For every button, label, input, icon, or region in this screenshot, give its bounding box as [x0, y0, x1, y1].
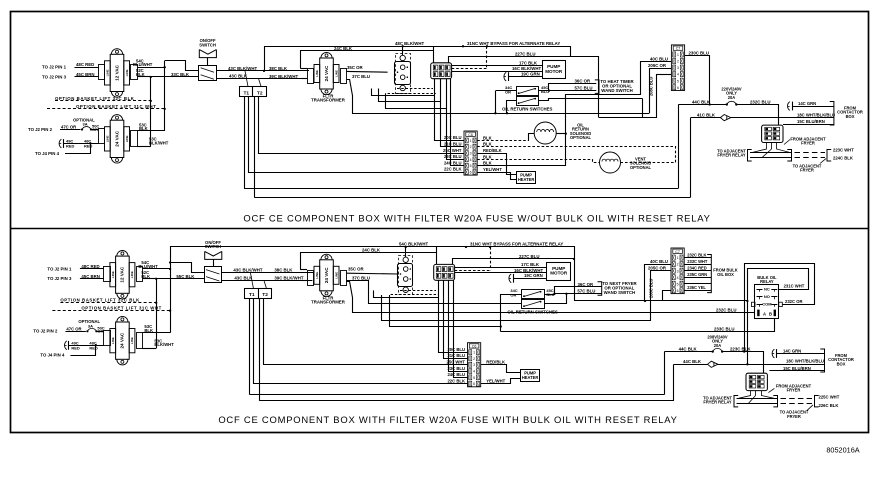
wire switch2 right link (bottom) [544, 294, 566, 304]
svg-text:SWITCH: SWITCH [199, 42, 216, 47]
svg-text:37C BLU: 37C BLU [352, 276, 370, 281]
wire bottom long run 2 (bottom) [260, 400, 674, 402]
wire 231C WHT from NC (bottom) [748, 269, 809, 365]
svg-text:19C GRN: 19C GRN [521, 71, 540, 76]
wire 39C to plug lower (top) [302, 78, 307, 80]
svg-text:BOX: BOX [837, 361, 846, 366]
wire 15C BLU/BRN (top) [783, 124, 834, 126]
svg-text:236C YEL: 236C YEL [687, 285, 706, 290]
wire riser run2 to fuse2 wire (bottom) [673, 364, 675, 401]
wire 40C BLU loop (bottom) [574, 300, 747, 302]
wire to J4 pin 4 (bottom) [70, 345, 95, 355]
svg-text:C6: C6 [468, 133, 473, 137]
node junction 52C bus (bottom) [155, 278, 157, 280]
plug left of FLTR transformer (top) [308, 69, 314, 84]
wire relay pin drop 1 (bottom) [439, 280, 468, 352]
on/off switch (top) stem [207, 58, 209, 66]
svg-text:3: 3 [473, 363, 475, 367]
svg-text:4: 4 [677, 276, 679, 280]
wire switch1 left drop (top) [495, 91, 497, 113]
node junction J4 (bottom) [95, 344, 97, 346]
wire 48C RED to J2 pin 1 (bottom) [80, 268, 104, 270]
connector C7 (top) [671, 45, 684, 91]
wire 223C WHT row (top) [750, 152, 792, 154]
wire switch to T2 drop (top) [259, 79, 262, 87]
svg-text:5: 5 [470, 164, 472, 168]
capacitor symbol 14C GRN (bottom) [772, 349, 774, 358]
svg-text:BLK: BLK [136, 72, 145, 77]
wire 47C OR to J2 pin 2 (bottom) [65, 331, 86, 333]
svg-text:232C BLK: 232C BLK [687, 252, 706, 257]
svg-text:45C BRN: 45C BRN [81, 274, 100, 279]
svg-text:24C BLK: 24C BLK [362, 248, 381, 253]
svg-text:3: 3 [470, 152, 472, 156]
svg-text:A: A [763, 311, 766, 316]
svg-text:5: 5 [677, 282, 679, 286]
svg-text:LINE: LINE [111, 337, 115, 344]
svg-text:FRYER: FRYER [800, 168, 814, 173]
connector adjacent fryer (bottom) [746, 373, 767, 390]
svg-text:44C BLK: 44C BLK [679, 346, 698, 351]
svg-text:223C BLK: 223C BLK [730, 346, 751, 351]
svg-text:OIL BOX: OIL BOX [717, 272, 734, 277]
svg-text:BLK: BLK [141, 274, 150, 279]
wire switch to T2 drop (bottom) [264, 280, 267, 288]
wire 232C BLU (top) [736, 105, 778, 126]
svg-text:226C BLK: 226C BLK [819, 403, 839, 408]
transformer 24VAC (bottom) [110, 316, 135, 365]
wire 34C OR into switch1 (top) [495, 90, 516, 92]
svg-text:36C OR: 36C OR [578, 282, 595, 287]
terminal T2 (bottom) [259, 289, 272, 299]
svg-text:17C BLK: 17C BLK [519, 60, 538, 65]
wire T1 drop to C6 row6 (top) [249, 97, 465, 173]
wire 227C BLU (top) [449, 57, 572, 63]
svg-text:TO J2 PIN 1: TO J2 PIN 1 [42, 65, 67, 70]
wire staircase feed 3 (top) [386, 93, 447, 108]
svg-text:24C BLU: 24C BLU [447, 372, 465, 377]
wire stub 24C to plug (bottom) [300, 269, 307, 271]
svg-text:4: 4 [473, 370, 475, 374]
oil return switch 2 (bottom) [522, 300, 545, 309]
svg-text:48C RED: 48C RED [76, 62, 94, 67]
svg-text:T2: T2 [262, 292, 268, 298]
svg-text:OR: OR [505, 89, 511, 94]
wire 54C BLU/WHT from 12VAC (bottom) [143, 268, 171, 270]
svg-text:8052016A: 8052016A [826, 446, 859, 455]
wire 16C BLK/WHT (bottom) [455, 272, 547, 274]
wire bypass dashed horizontal (top) [452, 68, 487, 70]
svg-text:19C GRN: 19C GRN [524, 273, 543, 278]
wire 44C BLK fuse feed (top) [678, 104, 726, 106]
wire relay pin drop 3 (bottom) [449, 280, 468, 371]
svg-text:44C BLK: 44C BLK [683, 359, 702, 364]
svg-text:C7: C7 [676, 47, 681, 51]
svg-text:RELAY: RELAY [760, 279, 774, 284]
wire 34C OR into switch1 (bottom) [501, 294, 522, 296]
svg-text:NC: NC [764, 286, 770, 291]
svg-text:COM: COM [762, 302, 772, 307]
svg-text:31NC WHT BYPASS FOR ALTERN: 31NC WHT BYPASS FOR ALTERNATE RELAY [467, 41, 560, 46]
svg-text:5: 5 [677, 79, 679, 83]
svg-text:18C WHT/BLK/BLU: 18C WHT/BLK/BLU [786, 358, 824, 363]
wire relay pin drop 3 (top) [447, 79, 465, 160]
svg-text:OPTIONAL: OPTIONAL [570, 135, 592, 140]
inline fuse holder (top) [720, 115, 730, 121]
svg-text:230C BLU: 230C BLU [689, 50, 709, 55]
wire C6 row6 to pump heater (bottom) [481, 379, 521, 384]
svg-text:LINE: LINE [315, 272, 319, 279]
svg-text:39C BLK/WHT: 39C BLK/WHT [274, 276, 303, 281]
svg-text:TO J2 PIN 2: TO J2 PIN 2 [28, 127, 53, 132]
svg-text:227C BLU: 227C BLU [519, 254, 539, 259]
svg-text:BOX: BOX [846, 114, 855, 119]
vent solenoid (top) [600, 152, 621, 173]
svg-text:55C BLK: 55C BLK [176, 274, 195, 279]
svg-text:31NC WHT BYPASS FOR ALTERN: 31NC WHT BYPASS FOR ALTERNATE RELAY [470, 242, 563, 247]
svg-text:20C BLU: 20C BLU [444, 135, 462, 140]
wire T1 drop to C6 row6 (bottom) [254, 299, 468, 384]
wire 24C BLK loop (bottom) [301, 253, 438, 270]
wire 52C BLK from 12VAC (top) [137, 76, 151, 78]
svg-text:LINE: LINE [130, 337, 134, 344]
wire option basket lift 32C BLK (dashed) (bottom) [60, 302, 156, 304]
wire stub 24C to plug (top) [300, 68, 307, 70]
oil return switch 1 (top) [517, 87, 539, 96]
on/off switch (bottom) contacts [206, 270, 219, 274]
node junction 54C bus (top) [164, 66, 166, 68]
wire 44C BLK fuse2 feed (bottom) [674, 364, 708, 366]
oil return solenoid (top) [534, 122, 556, 144]
svg-text:22C BLK: 22C BLK [447, 378, 465, 383]
wire relay pin drop 4 (bottom) [454, 280, 468, 377]
fuse 20A (bottom) [712, 350, 714, 352]
svg-text:LINE: LINE [125, 69, 129, 76]
wire 37C staircase to 232C BLU run (bottom) [346, 282, 755, 313]
line plug left of 12VAC (top) [99, 65, 105, 80]
wire 48C RED lower (bottom) [69, 345, 104, 347]
svg-text:OPTION BASKET LIFT 32C BLK: OPTION BASKET LIFT 32C BLK [55, 96, 135, 101]
wire 37C BLU from FLTR (top) [346, 80, 649, 114]
terminal T2 (top) [253, 87, 267, 97]
svg-text:OPTIONAL: OPTIONAL [630, 165, 652, 170]
svg-text:205C OR: 205C OR [648, 266, 667, 271]
wire 36C OR to bracket (bottom) [544, 287, 602, 295]
wire fuse top to bus (bottom) [405, 247, 407, 257]
svg-text:208C BLU: 208C BLU [648, 77, 653, 96]
wire T2 drop to bottom run 2 (bottom) [259, 299, 261, 401]
wire top bus 48C BLK/WHT (top) [265, 47, 571, 71]
svg-text:35C OR: 35C OR [347, 65, 364, 70]
wire top bus 54C BLK/WHT (bottom) [171, 247, 575, 302]
svg-text:RED: RED [71, 345, 80, 350]
svg-text:54C BLK/WHT: 54C BLK/WHT [399, 242, 428, 247]
wire 15C BLU/BRN (bottom) [769, 370, 824, 372]
svg-text:232C BLU: 232C BLU [716, 307, 736, 312]
pump heater box (top) [517, 172, 536, 184]
wire staircase feed 2 (top) [379, 89, 441, 102]
svg-text:12 VAC: 12 VAC [120, 266, 125, 282]
plug right of FLTR transformer (top) [341, 69, 347, 84]
svg-text:OIL RETURN SWITCHES: OIL RETURN SWITCHES [502, 106, 553, 111]
svg-text:1: 1 [677, 53, 679, 57]
svg-text:FRYER RELAY: FRYER RELAY [717, 153, 746, 158]
svg-text:4: 4 [677, 73, 679, 77]
wire 33C BLK to switch (top) [151, 76, 199, 78]
svg-text:RED: RED [66, 144, 75, 149]
svg-text:227C BLU: 227C BLU [515, 51, 535, 56]
wire switch1 left drop to 233C (bottom) [500, 294, 502, 332]
svg-text:4: 4 [470, 158, 472, 162]
svg-text:40C BLU: 40C BLU [650, 259, 668, 264]
svg-text:MOTOR: MOTOR [550, 271, 568, 276]
wire option basket lift 31C WHT (dashed) (top) [47, 108, 165, 110]
wire 205C OR into C7 row3 (top) [650, 69, 672, 114]
wire T2 drop to C6 row3 (top) [259, 97, 465, 154]
svg-text:LINE: LINE [125, 135, 129, 142]
relay reset (bottom) [434, 264, 455, 280]
svg-text:HEATER: HEATER [518, 177, 535, 182]
svg-text:23C BLU: 23C BLU [447, 366, 465, 371]
svg-text:6: 6 [677, 86, 679, 90]
svg-text:25C WHT: 25C WHT [443, 148, 462, 153]
connector C6 (top) [464, 131, 477, 175]
wire relay pin drop 2 (top) [441, 79, 465, 147]
wire 227C riser down (top) [571, 57, 599, 118]
wire C6 row6 to pump heater (top) [477, 173, 517, 180]
wire 54C BLU/WHT from 12VAC (top) [137, 67, 165, 69]
svg-text:YEL/WHT: YEL/WHT [486, 379, 505, 384]
svg-text:BLU/WHT: BLU/WHT [138, 264, 158, 269]
line plug left of 12VAC (bottom) [104, 267, 111, 282]
wire C7 row4 stub (top) [656, 74, 671, 76]
on/off switch (top) box [199, 66, 217, 81]
fuse W20A holder (bottom) body [398, 264, 413, 287]
pump motor box (top) [543, 61, 566, 79]
wire 225C WHT row (bottom) [737, 398, 778, 400]
wire C6 row1 dashed to oil return solenoid (top) [477, 140, 529, 142]
capacitor symbol 49C (bottom) [65, 341, 67, 350]
fuse 3A optional (bottom) [86, 330, 88, 332]
wire 47C OR to J2 pin 2 (top) [60, 129, 81, 131]
plug right of 12VAC (top) [131, 65, 138, 80]
svg-text:20C BLU: 20C BLU [447, 347, 465, 352]
transformer FLTR 24VAC (top) [314, 52, 339, 94]
svg-text:14C GRN: 14C GRN [783, 348, 801, 353]
wire 19C GRN (bottom) [513, 278, 547, 280]
wire 223C BLK (bottom) [722, 352, 763, 374]
svg-text:205C OR: 205C OR [648, 63, 667, 68]
svg-text:223C WHT: 223C WHT [833, 147, 854, 152]
svg-text:14C GRN: 14C GRN [798, 101, 816, 106]
pointer from adjacent fryer (bottom) [768, 388, 774, 392]
wire 44C BLK fuse feed (bottom) [664, 351, 712, 353]
svg-text:2: 2 [677, 263, 679, 267]
connector adjacent fryer (top) [762, 125, 783, 142]
bracket heat timer (top) [595, 80, 599, 94]
svg-text:TO J2 PIN 3: TO J2 PIN 3 [42, 74, 67, 79]
wire solenoid right stub (top) [556, 133, 566, 135]
svg-text:C7: C7 [675, 250, 680, 254]
wire relay top pin to bus (top) [433, 46, 435, 63]
connector C7 (bottom) [671, 248, 684, 294]
wire 50C OR (top) [91, 129, 98, 131]
svg-text:235C GRN: 235C GRN [687, 272, 707, 277]
svg-text:BLU: BLU [541, 89, 549, 94]
svg-text:BLK: BLK [139, 126, 148, 131]
wire 224C BLK row (top) [750, 157, 792, 159]
svg-text:BLK/WHT: BLK/WHT [149, 140, 169, 145]
svg-text:2: 2 [677, 60, 679, 64]
svg-text:LINE: LINE [106, 69, 110, 76]
svg-text:36C OR: 36C OR [575, 79, 592, 84]
wire connector pin drops (top) [752, 143, 767, 153]
terminal T1 (bottom) [245, 289, 259, 299]
svg-text:12 VAC: 12 VAC [114, 64, 119, 80]
svg-text:2: 2 [473, 357, 475, 361]
svg-text:43C BLK/WHT: 43C BLK/WHT [228, 66, 257, 71]
capacitor symbol 49C (top) [59, 139, 61, 148]
node junction J4 (top) [89, 142, 91, 144]
wire C7 row1 230C BLU (top) [685, 56, 710, 105]
svg-text:1: 1 [677, 256, 679, 260]
capacitor symbol 14C GRN (top) [788, 102, 790, 111]
svg-text:24 VAC: 24 VAC [120, 332, 125, 348]
svg-text:YEL/WHT: YEL/WHT [483, 167, 502, 172]
svg-text:20A: 20A [714, 343, 722, 348]
svg-text:23C BLU: 23C BLU [444, 154, 462, 159]
wire 43C BLK/WHT (bottom) [222, 272, 315, 274]
wire 45C BRN to J2 pin 3 (bottom) [80, 278, 104, 280]
wire 43C BLK (bottom) [222, 280, 313, 282]
wire 14C GRN (bottom) [777, 353, 825, 355]
wire 17C BLK (bottom) [455, 267, 547, 269]
svg-text:LINE: LINE [106, 135, 110, 142]
wire riser run1 to 44C fuse wire (top) [678, 105, 680, 189]
wire C7 row6 hook (bottom) [663, 291, 672, 302]
svg-text:OR: OR [510, 292, 516, 297]
node junction 54C bus (bottom) [169, 268, 171, 270]
plug left of FLTR transformer (bottom) [308, 271, 314, 286]
svg-text:BLK/WHT: BLK/WHT [154, 342, 174, 347]
svg-text:T2: T2 [257, 90, 263, 96]
svg-text:OCF CE COMPONENT BOX WITH: OCF CE COMPONENT BOX WITH FILTER W20A FU… [218, 414, 677, 425]
svg-text:TO J2 PIN 1: TO J2 PIN 1 [47, 266, 72, 271]
wire bypass dashed vertical (top) [486, 46, 488, 68]
svg-text:TO J2 PIN 3: TO J2 PIN 3 [47, 276, 72, 281]
svg-text:LINE: LINE [334, 70, 338, 77]
svg-text:18C WHT/BLK/BLU: 18C WHT/BLK/BLU [797, 113, 835, 118]
svg-text:40C BLU: 40C BLU [650, 57, 668, 62]
svg-text:43C BLK: 43C BLK [234, 275, 253, 280]
wire 36C OR to bracket (top) [539, 84, 597, 91]
svg-text:BLK: BLK [144, 328, 153, 333]
plug right of 24VAC (bottom) [137, 333, 143, 349]
svg-text:TO J4 PIN 4: TO J4 PIN 4 [40, 353, 65, 358]
svg-text:BLU/WHT: BLU/WHT [133, 62, 153, 67]
svg-text:LINE: LINE [130, 271, 134, 278]
svg-text:OPTION BASKET LIFT 32C BLK: OPTION BASKET LIFT 32C BLK [60, 298, 140, 303]
svg-text:TO J4 PIN 4: TO J4 PIN 4 [35, 151, 60, 156]
svg-text:57C BLU: 57C BLU [577, 289, 595, 294]
wire 208C BLU run to C7 (bottom) [382, 271, 672, 321]
wire 16C BLK/WHT (top) [452, 71, 542, 73]
svg-text:43C BLK: 43C BLK [229, 74, 248, 79]
wire 41C BLK fuse2 feed (top) [691, 117, 721, 119]
wire 57C BLU to bracket (bottom) [554, 293, 601, 295]
svg-text:224C BLK: 224C BLK [833, 156, 853, 161]
svg-text:48C BLK/WHT: 48C BLK/WHT [395, 41, 424, 46]
plug right of 12VAC (bottom) [137, 267, 143, 282]
bulk oil relay contacts (bottom) [757, 289, 763, 291]
capacitor symbol 19C GRN (top) [504, 72, 506, 81]
wire 52C BLK from 12VAC (bottom) [143, 278, 157, 280]
svg-text:24 VAC: 24 VAC [324, 267, 329, 283]
svg-text:TRANSFORMER: TRANSFORMER [311, 98, 346, 103]
bulk oil relay coil pins A B (bottom) [757, 310, 759, 317]
wire riser 54C to switch (top) [164, 61, 166, 67]
wire C6 row5 to solenoid right (top) [477, 62, 666, 166]
wire option basket lift 32C BLK (dashed) (top) [55, 100, 151, 102]
svg-text:38C BLK: 38C BLK [274, 268, 293, 273]
svg-text:T1: T1 [243, 90, 249, 96]
wire 40C BLU into C7 row2 (top) [640, 61, 671, 63]
node solenoid right junction (top) [565, 133, 567, 135]
wire 45C BRN to J2 pin 3 (top) [75, 76, 99, 78]
bracket adjacent fryer right (top) [827, 150, 831, 162]
svg-text:33C BLK: 33C BLK [171, 72, 190, 77]
pointer to adjacent fryer (top) [820, 159, 826, 164]
svg-text:TO J2 PIN 2: TO J2 PIN 2 [33, 329, 58, 334]
wire relay pin drop 1 (top) [435, 79, 465, 141]
wire switch to T1 drop (bottom) [250, 273, 253, 289]
svg-text:234C RED: 234C RED [687, 265, 707, 270]
svg-text:45C BRN: 45C BRN [76, 72, 95, 77]
wire 53C BLK/WHT from 24VAC (bottom) [143, 348, 157, 350]
svg-text:FRYER: FRYER [787, 388, 801, 393]
wire 53C BLK/WHT from 24VAC (top) [137, 146, 151, 148]
wire staircase feed C (bottom) [390, 295, 501, 327]
wire C6 row3 to pump heater (bottom) [481, 365, 521, 373]
node junction 52C bus (top) [150, 76, 152, 78]
wire 19C GRN (top) [508, 76, 542, 78]
svg-text:OCF CE COMPONENT BOX WITH: OCF CE COMPONENT BOX WITH FILTER W20A FU… [243, 213, 710, 224]
bus wire left vertical 52C (top) [150, 77, 152, 147]
svg-text:LINE: LINE [111, 271, 115, 278]
bracket next fryer (bottom) [598, 282, 602, 296]
divider line between diagrams [11, 228, 869, 230]
svg-text:6: 6 [677, 289, 679, 293]
bulk oil relay box (bottom) [755, 285, 779, 319]
terminal T1 (top) [240, 87, 253, 97]
on/off switch (top) contacts [201, 68, 214, 72]
wire switch to T1 drop (top) [245, 71, 248, 87]
wire 35C OR from FLTR to fuse terminal (bottom) [346, 272, 399, 275]
bus wire left vertical 54C (top) [164, 67, 166, 131]
svg-text:2: 2 [470, 145, 472, 149]
svg-text:24 VAC: 24 VAC [324, 65, 329, 81]
svg-text:RED/BLK: RED/BLK [486, 360, 505, 365]
bracket adjacent fryer right (bottom) [815, 396, 819, 407]
svg-text:233C WHT: 233C WHT [687, 259, 708, 264]
transformer FLTR 24VAC (bottom) [314, 254, 339, 296]
svg-text:BLK: BLK [483, 161, 492, 166]
svg-text:FRYER: FRYER [801, 141, 815, 146]
plug left of 24VAC (bottom) [104, 331, 111, 346]
bracket to adjacent fryer relay (bottom) [734, 396, 738, 407]
pump heater box (bottom) [521, 370, 540, 382]
plug right of 24VAC (top) [131, 131, 138, 147]
